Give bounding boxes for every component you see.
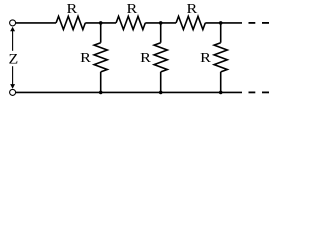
svg-text:R: R xyxy=(200,51,211,66)
terminal circle top-left xyxy=(10,20,16,26)
impedance arrow Z (upper line segment) xyxy=(12,30,14,51)
wire top: R1 to node A xyxy=(85,22,116,24)
shunt resistor R branch 2: upper wire xyxy=(160,23,162,43)
wire bottom dashed continuation dash 1 xyxy=(249,91,256,93)
node C top junction dot xyxy=(219,21,223,25)
impedance arrow Z (lower line segment) xyxy=(12,66,14,85)
wire bottom: terminal to far right xyxy=(16,91,242,93)
wire top: R3 to node C and beyond xyxy=(205,22,242,24)
shunt resistor R branch 3: zigzag xyxy=(214,43,227,72)
terminal circle bottom-left xyxy=(10,89,16,95)
resistor R (series 1) xyxy=(56,16,85,29)
svg-text:Z: Z xyxy=(9,51,19,67)
wire top: R2 to node B xyxy=(145,22,176,24)
svg-text:R: R xyxy=(140,51,151,66)
shunt resistor R branch 3: lower wire xyxy=(220,72,222,93)
impedance arrow Z (up arrowhead) xyxy=(10,27,15,32)
node A top junction dot xyxy=(99,21,103,25)
shunt resistor R branch 2: lower wire xyxy=(160,72,162,93)
shunt resistor R branch 1: upper wire xyxy=(100,23,102,43)
shunt resistor R branch 3: upper wire xyxy=(220,23,222,43)
wire top: terminal to R1 xyxy=(16,22,57,24)
node A bottom junction dot xyxy=(99,91,103,95)
node C bottom junction dot xyxy=(219,91,223,95)
svg-text:R: R xyxy=(67,2,78,17)
node B bottom junction dot xyxy=(159,91,163,95)
svg-text:R: R xyxy=(127,2,138,17)
shunt resistor R branch 2: zigzag xyxy=(154,43,167,72)
wire bottom dashed continuation dash 2 xyxy=(262,91,269,93)
svg-text:R: R xyxy=(80,51,91,66)
shunt resistor R branch 1: lower wire xyxy=(100,72,102,93)
shunt resistor R branch 1: zigzag xyxy=(94,43,107,72)
wire top dashed continuation dash 2 xyxy=(262,22,269,24)
resistor R (series 3) xyxy=(176,16,205,29)
node B top junction dot xyxy=(159,21,163,25)
impedance arrow Z (down arrowhead) xyxy=(10,84,15,89)
wire top dashed continuation dash 1 xyxy=(249,22,256,24)
svg-text:R: R xyxy=(187,2,198,17)
resistor R (series 2) xyxy=(116,16,145,29)
